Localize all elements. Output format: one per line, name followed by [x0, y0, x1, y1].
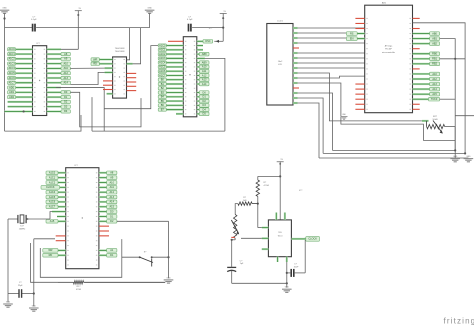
- node label A12: [199, 74, 209, 78]
- wire LCD1 pin 10: [293, 72, 298, 74]
- wire LCD1 pin 15: [293, 97, 298, 99]
- wire U1 right pin 15: [413, 88, 430, 90]
- svg-text:A10: A10: [63, 62, 68, 65]
- wire IC1 left pin 8: [16, 82, 33, 84]
- wire IC3 left pin 13: [166, 91, 183, 93]
- node label A10: [430, 72, 440, 76]
- node label A13: [61, 76, 70, 79]
- wire IC3 right pin 18: [197, 113, 200, 115]
- node label A1C5: [158, 65, 166, 68]
- wire U1 right pin nc: [413, 28, 420, 30]
- wire IC2 left pin 2: [99, 63, 112, 65]
- wire IC2 right pin 1: [127, 28, 141, 64]
- svg-text:A1C1: A1C1: [8, 53, 15, 56]
- wire U1 left pin 1 nc: [355, 17, 364, 19]
- resistor R3 470: [58, 281, 165, 291]
- wire IC1 left pin 13: [8, 106, 33, 108]
- node label D3: [199, 104, 209, 108]
- wire LCD1 pin 7: [293, 57, 298, 59]
- svg-text:74HC08N: 74HC08N: [115, 51, 125, 53]
- wire LCD1 pin 3: [293, 37, 298, 39]
- wire: [298, 67, 365, 69]
- wire IC5 top pin 1: [275, 213, 277, 220]
- node label A11: [199, 69, 209, 73]
- wire: [5, 115, 82, 131]
- node label A13: [430, 82, 440, 86]
- node label D1: [107, 253, 117, 257]
- node label A1C7: [46, 205, 58, 209]
- svg-text:A1C6: A1C6: [159, 70, 166, 73]
- svg-text:RS: RS: [350, 32, 354, 35]
- node label D2: [199, 99, 209, 103]
- wire IC3 right pin 4: [197, 53, 200, 55]
- node label A14: [61, 81, 70, 84]
- wire U1 right pin nc: [413, 68, 420, 70]
- svg-text:A1C3: A1C3: [8, 62, 15, 65]
- node label WR: [91, 58, 99, 62]
- wire IC3 right pin 11: [197, 83, 200, 85]
- wire IC4 right pin 17: [99, 249, 107, 251]
- wire IC3 left pin 5: [166, 57, 183, 59]
- wire IC3 left pin 18: [176, 113, 183, 115]
- node label A1C0: [46, 171, 58, 175]
- node label A1C2: [46, 181, 58, 185]
- wire IC1 left pin 3: [16, 58, 33, 60]
- wire IC1 left pin 1: [16, 48, 33, 50]
- svg-text:16MHz: 16MHz: [19, 228, 26, 230]
- wire IC2 right pin nc: [127, 72, 137, 74]
- node label B6: [158, 104, 166, 107]
- wire U1 right pin nc: [413, 48, 420, 50]
- wire IC4 right pin 4: [99, 186, 107, 188]
- svg-text:A1C0: A1C0: [8, 48, 15, 51]
- svg-text:A1C6: A1C6: [49, 201, 56, 204]
- wire IC4 left pin 6: [58, 196, 66, 198]
- wire IC3 left pin 8: [166, 70, 183, 72]
- wire IC5 left pin 3: [262, 248, 269, 250]
- node label AB8: [199, 52, 209, 56]
- wire U1 right pin 2: [413, 23, 466, 154]
- svg-text:A1C2: A1C2: [8, 58, 15, 61]
- resistor R6 pot: [231, 215, 239, 239]
- wire IC1 right pin 7: [47, 77, 61, 79]
- wire: [298, 32, 365, 34]
- wire IC1 left pin 12: [8, 101, 33, 103]
- wire IC1 left pin 14 GND: [5, 110, 33, 112]
- node label A10: [61, 62, 70, 65]
- node label B4: [158, 95, 166, 98]
- svg-text:A1C7: A1C7: [159, 74, 166, 77]
- node label D0: [61, 91, 70, 94]
- wire IC4 right pin 9: [99, 211, 107, 213]
- wire LCD1 pin 12: [293, 82, 298, 84]
- wire: [422, 120, 429, 122]
- wire IC1 right pin 14: [47, 110, 61, 112]
- wire IC1 right pin 3: [47, 58, 61, 60]
- wire IC3 left pin 6: [166, 62, 183, 64]
- wire LCD1 pin 2: [293, 32, 298, 34]
- wire IC4 right pin 3: [99, 181, 107, 183]
- node label A1C6: [46, 200, 58, 204]
- power +5V: [56, 8, 82, 49]
- svg-text:22pF: 22pF: [18, 285, 23, 287]
- wire IC1 left pin 9: [16, 86, 33, 88]
- wire IC4 left pin 4: [60, 186, 66, 188]
- wire U1 left pin 5: [357, 37, 365, 39]
- capacitor C2: [187, 16, 193, 31]
- node label RB0: [430, 52, 440, 56]
- wire: [40, 239, 122, 277]
- wire U1 right pin nc: [413, 17, 420, 19]
- wire IC5 left pin 2: [241, 237, 268, 239]
- wire LCD1 pin 4: [293, 42, 298, 44]
- wire: [440, 58, 466, 60]
- wire IC3 left pin 2: [166, 44, 183, 46]
- svg-text:AB9: AB9: [202, 61, 207, 64]
- wire IC4 right pin 8: [99, 206, 107, 208]
- wire: [298, 98, 324, 153]
- node label D4: [199, 108, 209, 112]
- wire IC3 left pin 15: [166, 100, 183, 102]
- node label D5: [199, 112, 209, 116]
- svg-text:AD1: AD1: [9, 91, 14, 94]
- ic IC3 latch: [183, 28, 213, 117]
- node label RD: [43, 253, 58, 257]
- wire U1 right pin 16: [413, 93, 430, 95]
- wire IC1 right pin 10: [47, 91, 61, 93]
- node label A14: [199, 82, 209, 86]
- wire IC3 left pin 17: [166, 109, 183, 111]
- svg-text:A1C6: A1C6: [8, 77, 15, 80]
- svg-text:A1C4: A1C4: [159, 61, 166, 64]
- wire IC3 right pin 8: [197, 70, 200, 72]
- node label B3: [158, 91, 166, 94]
- wire IC3 right pin 3: [197, 49, 203, 51]
- svg-text:A10: A10: [110, 181, 115, 184]
- wire IC2 left pin 5 nc: [103, 80, 113, 82]
- node label WR: [43, 249, 58, 253]
- svg-text:GND: GND: [285, 287, 290, 289]
- svg-text:AB0: AB0: [432, 32, 437, 35]
- svg-text:LCD: LCD: [278, 64, 283, 66]
- wire IC1 left pin 2: [16, 53, 33, 55]
- svg-text:A1C5: A1C5: [8, 72, 15, 75]
- node label A1C5: [46, 195, 58, 199]
- node label RB1: [430, 57, 440, 61]
- wire IC3 right pin 10: [197, 79, 200, 81]
- wire: [298, 57, 365, 59]
- node label A8: [61, 52, 70, 55]
- wire IC1 left pin 6: [16, 72, 33, 74]
- wire IC1 left pin 10: [16, 91, 33, 93]
- wire LCD1 pin 16: [293, 102, 298, 104]
- wire: [333, 149, 456, 151]
- wire IC1 right pin 6: [47, 72, 61, 74]
- svg-text:CLOCK: CLOCK: [46, 186, 55, 189]
- svg-text:GND: GND: [466, 156, 471, 158]
- svg-text:470Ω: 470Ω: [76, 289, 81, 291]
- wire U1 right pin 10: [413, 63, 430, 65]
- node label D0: [107, 210, 117, 214]
- svg-text:A14: A14: [110, 201, 115, 204]
- svg-text:microcontroller: microcontroller: [382, 51, 395, 54]
- node label AD2: [8, 95, 16, 98]
- svg-text:fritzing: fritzing: [444, 317, 474, 326]
- node label A9: [61, 57, 70, 60]
- wire IC3 left pin 12: [166, 87, 183, 89]
- capacitor C4 1uF: [227, 260, 244, 283]
- node label AD1: [8, 91, 16, 94]
- wire U1 left pin nc: [355, 88, 364, 90]
- svg-text:A15: A15: [50, 220, 55, 223]
- wire U1 right pin 9: [413, 58, 430, 60]
- wire IC4 left pin nc: [56, 235, 66, 237]
- power +5V: [214, 11, 226, 43]
- svg-text:AB2: AB2: [432, 42, 437, 45]
- resistor R5 1k: [238, 197, 258, 205]
- wire IC4 right pin 5: [99, 191, 107, 193]
- node label B1: [158, 82, 166, 85]
- wire IC3 left pin 9: [166, 74, 183, 76]
- wire: [70, 92, 141, 127]
- wire IC4 left pin 5: [58, 191, 66, 193]
- wire IC4 left pin 17: [58, 249, 66, 251]
- wire: [298, 42, 365, 44]
- wire IC1 right pin 11: [47, 96, 61, 98]
- node label A1C6: [158, 70, 166, 73]
- wire: [298, 37, 365, 39]
- wire IC1 left pin 11: [16, 96, 33, 98]
- node label A1C3: [158, 57, 166, 60]
- svg-text:A15: A15: [110, 206, 115, 209]
- svg-text:A12: A12: [202, 74, 207, 77]
- node label A10: [107, 181, 117, 185]
- svg-text:A1C0: A1C0: [159, 44, 166, 47]
- wire IC4 right pin nc: [99, 230, 109, 232]
- node label A1C7: [158, 74, 166, 77]
- wire IC3 right pin 6: [197, 62, 200, 64]
- node label D1: [199, 95, 209, 99]
- wire IC4 left pin 7: [58, 201, 66, 203]
- wire CLOCK: [291, 238, 305, 240]
- svg-text:A13: A13: [110, 196, 115, 199]
- wire IC4 left pin 1: [58, 172, 66, 174]
- wire U1 right pin nc: [413, 103, 420, 105]
- text fritzing: [444, 317, 474, 326]
- node label A1C1: [8, 52, 16, 55]
- wire U1 right pin 12: [413, 73, 430, 75]
- svg-text:A1C7: A1C7: [8, 82, 15, 85]
- wire IC2 right pin nc: [127, 81, 137, 83]
- svg-text:WR: WR: [93, 58, 97, 61]
- ground: [464, 156, 474, 162]
- wire IC1 right pin 13: [47, 106, 61, 108]
- svg-text:A1C7: A1C7: [49, 206, 56, 209]
- node label A1C0: [8, 48, 16, 51]
- wire IC4 left pin 3: [58, 181, 66, 183]
- svg-text:A14: A14: [432, 88, 437, 91]
- svg-text:A1C1: A1C1: [49, 176, 56, 179]
- wire U1 left pin nc: [355, 108, 364, 110]
- wire: [7, 219, 9, 294]
- svg-text:EN: EN: [350, 37, 354, 40]
- svg-text:1kΩ: 1kΩ: [243, 200, 247, 202]
- wire: [440, 39, 456, 151]
- wire IC2 right pin nc: [127, 77, 137, 79]
- wire IC3 right pin 13: [197, 91, 200, 93]
- svg-text:ATmega: ATmega: [385, 45, 393, 48]
- ground: [282, 287, 292, 293]
- node label OSC: [203, 40, 213, 44]
- node label A1C2: [8, 57, 16, 60]
- svg-text:A13: A13: [63, 77, 68, 80]
- svg-text:RB1: RB1: [432, 58, 437, 61]
- wire IC3 right pin 9: [197, 74, 200, 76]
- wire U1 left pin 2 nc: [355, 22, 364, 24]
- svg-text:A10: A10: [202, 66, 207, 69]
- wire IC3 left pin 10: [166, 79, 183, 81]
- wire IC1 right pin 8: [47, 82, 61, 84]
- wire: [455, 115, 474, 117]
- node junction: [279, 175, 281, 177]
- node label A9: [107, 176, 117, 180]
- node label AB2: [430, 42, 440, 46]
- wire IC5 top pin 2: [284, 213, 286, 220]
- svg-text:A12: A12: [63, 72, 68, 75]
- wire: [70, 67, 104, 69]
- wire: [319, 157, 468, 159]
- wire IC1 left pin 4: [16, 63, 33, 65]
- wire IC5 bottom pin 1: [277, 257, 279, 262]
- svg-text:A15: A15: [432, 93, 437, 96]
- wire: [70, 72, 104, 84]
- svg-text:A1C2: A1C2: [49, 181, 56, 184]
- wire: [298, 83, 424, 141]
- svg-text:4.7kΩ: 4.7kΩ: [263, 185, 269, 187]
- wire IC4 right pin 2: [99, 177, 107, 179]
- node label A15: [430, 92, 440, 96]
- svg-text:RB0: RB0: [432, 53, 437, 56]
- wire: [298, 103, 320, 158]
- svg-text:A12: A12: [432, 78, 437, 81]
- wire IC3 right pin 5: [197, 58, 225, 131]
- node label EN: [346, 37, 357, 41]
- wire IC3 left pin 3: [166, 49, 183, 51]
- wire: [127, 28, 130, 60]
- node label CLOCK: [41, 186, 60, 190]
- switch S1: [122, 252, 170, 267]
- svg-text:Timer: Timer: [277, 235, 282, 237]
- wire: [56, 88, 104, 132]
- svg-text:A1C5: A1C5: [49, 196, 56, 199]
- svg-text:AD0: AD0: [9, 86, 14, 89]
- capacitor C5 10nF: [287, 238, 307, 277]
- wire U1 right pin 8: [413, 53, 430, 55]
- wire: [235, 204, 238, 215]
- wire U1 right pin 6: [413, 43, 430, 45]
- wire LCD1 pin 6: [293, 52, 298, 54]
- wire IC4 right pin 6: [99, 196, 107, 198]
- svg-text:CLOCK: CLOCK: [308, 238, 317, 241]
- timer IC5 555: [268, 190, 303, 256]
- wire IC4 right pin 18: [99, 254, 107, 256]
- svg-text:A1C1: A1C1: [159, 49, 166, 52]
- svg-text:WR: WR: [48, 249, 52, 252]
- wire IC2 right pin nc: [127, 85, 137, 87]
- svg-text:10nF: 10nF: [294, 266, 299, 268]
- node label A11: [107, 186, 117, 190]
- node GND-rail junction: [3, 17, 5, 19]
- node label A10: [199, 65, 209, 69]
- resistor R2 10k: [423, 116, 455, 140]
- ground: [145, 8, 155, 28]
- ic IC1 latch: [33, 43, 47, 115]
- ground: [3, 301, 13, 307]
- node label A1C4: [46, 190, 58, 194]
- wire IC3 left pin 11: [166, 83, 183, 85]
- wire IC2 left pin 3: [105, 67, 113, 69]
- node label D1: [61, 95, 70, 98]
- wire U1 left pin nc: [355, 83, 364, 85]
- wire IC3 right pin 16: [197, 104, 200, 106]
- node label AB0: [430, 32, 440, 36]
- wire IC4 right pin nc: [99, 225, 109, 227]
- svg-text:AD2: AD2: [9, 96, 14, 99]
- wire IC1 left pin 5: [16, 67, 33, 69]
- node label A15: [107, 205, 117, 209]
- node label A8: [107, 171, 117, 175]
- wire IC2 right pin nc: [127, 90, 137, 92]
- node label A1: [107, 249, 117, 253]
- wire IC4 left pin 2: [58, 177, 66, 179]
- svg-text:A1C5: A1C5: [159, 66, 166, 69]
- node label A13: [199, 78, 209, 82]
- svg-text:A1C4: A1C4: [8, 67, 15, 70]
- wire IC2 left pin 8: [107, 93, 113, 95]
- node label A1C3: [8, 62, 16, 65]
- wire: [258, 176, 280, 180]
- wire IC1 left pin 7: [16, 77, 33, 79]
- wire U1 right pin 13: [413, 78, 430, 80]
- wire LCD1 pin 5 nc: [293, 47, 299, 49]
- power +5V: [277, 159, 284, 220]
- wire IC3 left pin 1 nc: [168, 40, 183, 42]
- node label B2: [158, 87, 166, 90]
- wire: [5, 28, 224, 132]
- wire: [231, 238, 236, 265]
- svg-text:OSC: OSC: [205, 40, 211, 43]
- wire: [323, 152, 466, 154]
- node label A1C4: [8, 67, 16, 70]
- wire: [298, 52, 365, 54]
- node label A11: [61, 67, 70, 70]
- node label A1C1: [46, 176, 58, 180]
- wire IC1 right pin 12: [47, 101, 61, 103]
- svg-text:A1C4: A1C4: [49, 191, 56, 194]
- svg-text:GND: GND: [32, 305, 37, 307]
- wire IC1 right pin 4: [47, 63, 61, 65]
- wire LCD1 pin 14: [293, 92, 298, 94]
- svg-text:A1C0: A1C0: [49, 172, 56, 175]
- node label CLOCK: [306, 237, 320, 242]
- wire: [117, 221, 169, 278]
- node label TCK0: [429, 97, 440, 101]
- node label A1C2: [158, 53, 166, 56]
- node label A1C0: [158, 44, 166, 47]
- wire IC3 right pin 1 OSC: [197, 40, 203, 42]
- svg-text:A13: A13: [202, 79, 207, 82]
- wire IC4 left pin nc: [56, 240, 66, 242]
